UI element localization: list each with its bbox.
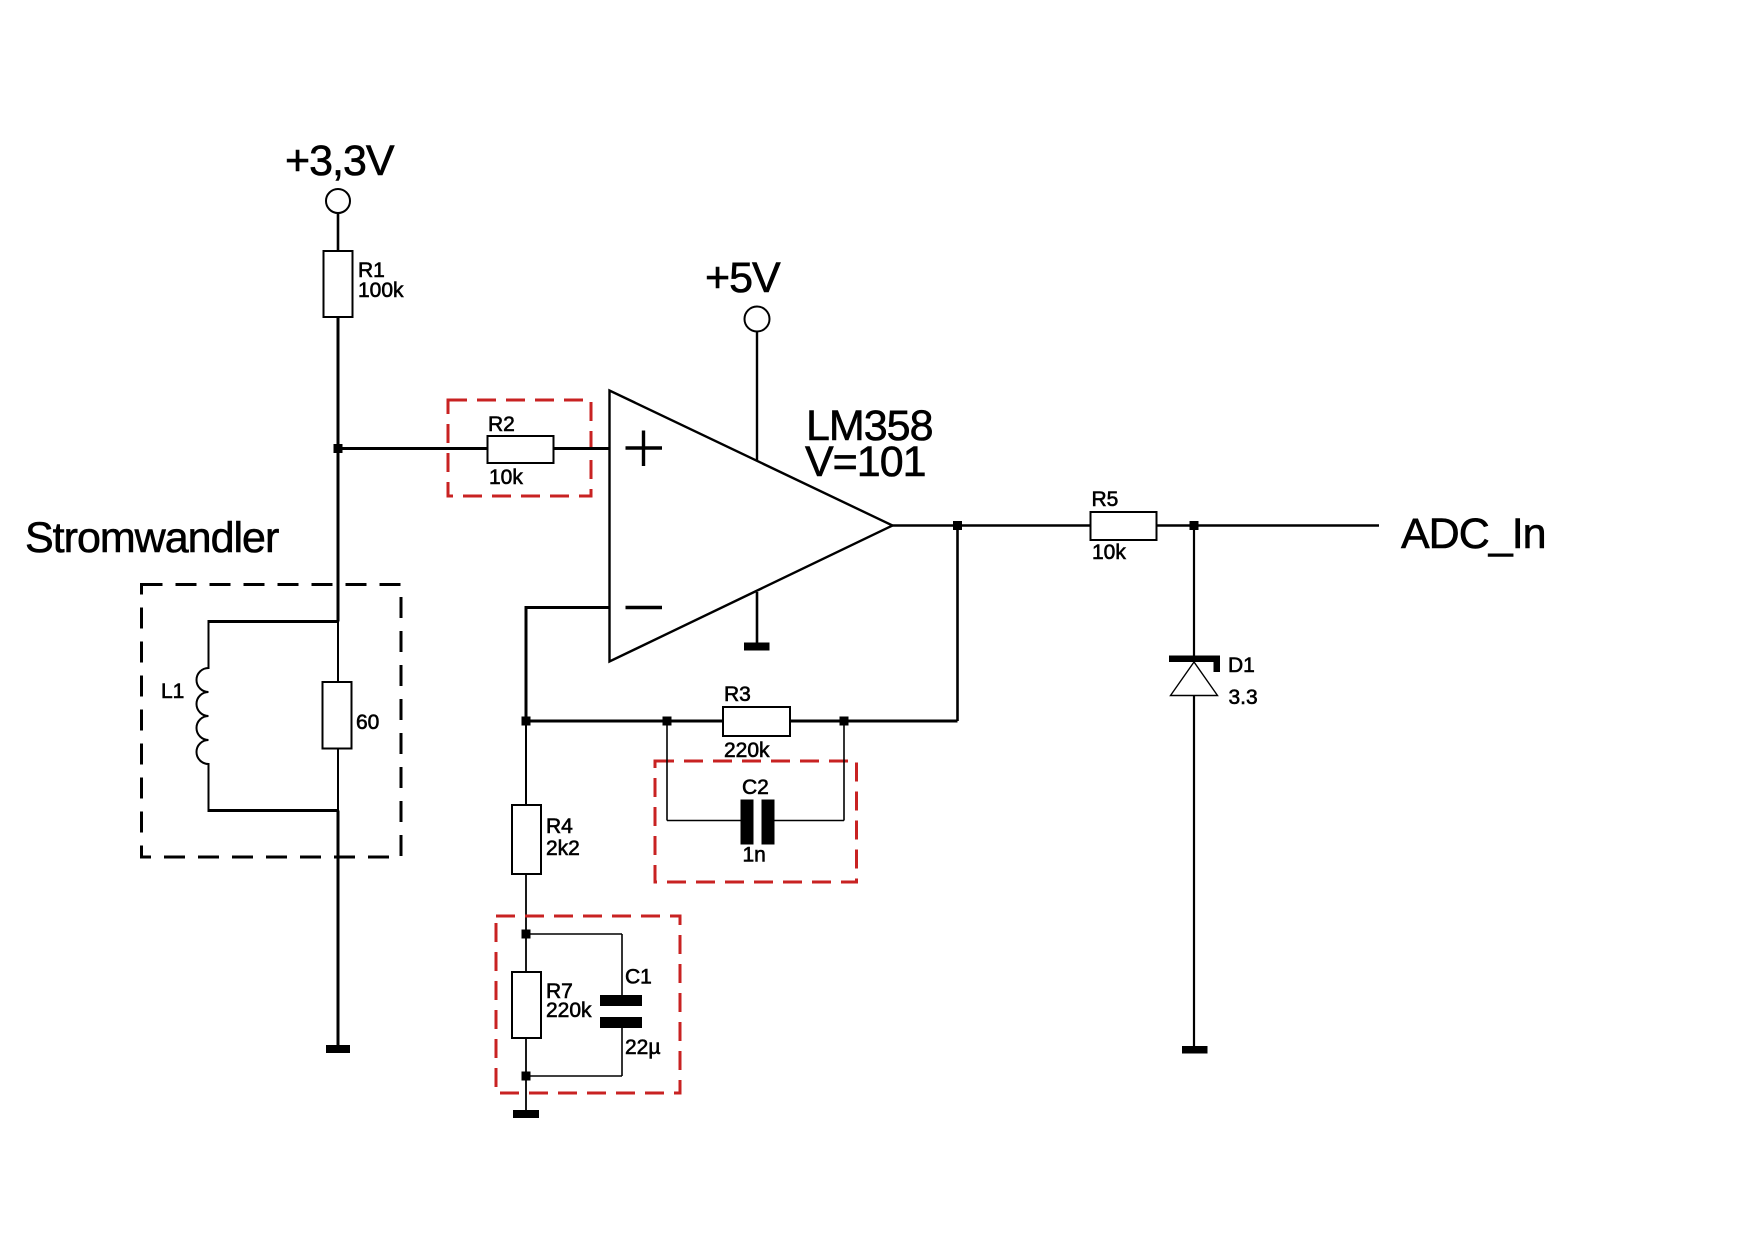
svg-text:2k2: 2k2	[546, 837, 580, 860]
resistor R7	[512, 934, 592, 1076]
op-amp minus input symbol	[626, 606, 663, 609]
power terminal +3,3V circle	[326, 189, 350, 213]
svg-text:R3: R3	[724, 683, 751, 706]
svg-text:R2: R2	[488, 413, 515, 436]
wire terminal to R1	[337, 213, 340, 251]
wire to inverting input	[526, 608, 609, 722]
svg-text:V=101: V=101	[805, 438, 926, 486]
wire R4 to R7 node	[525, 874, 527, 934]
wire node to ground	[525, 1076, 527, 1110]
wire node to D1	[1193, 526, 1195, 657]
wire R1 bottom to ground (main left vertical)	[337, 317, 340, 622]
svg-text:Stromwandler: Stromwandler	[25, 514, 279, 562]
svg-text:C2: C2	[742, 776, 769, 799]
node R7/C1 top	[522, 930, 531, 939]
red dashed box around R2	[448, 400, 591, 496]
svg-text:1n: 1n	[743, 844, 766, 867]
resistor R3	[723, 683, 790, 762]
svg-text:22µ: 22µ	[625, 1036, 660, 1059]
inductor L1	[161, 620, 338, 812]
svg-text:10k: 10k	[489, 466, 523, 489]
ground (op-amp)	[744, 643, 770, 651]
wire main vertical through Stromwandler lower	[337, 746, 339, 811]
zener diode D1	[1169, 654, 1258, 709]
node junction at R2 tap	[334, 444, 343, 453]
wire R5 to ADC node	[1157, 524, 1195, 526]
power terminal +5V circle	[745, 307, 770, 332]
wire R2 to op-amp + input	[554, 447, 610, 450]
svg-text:ADC_In: ADC_In	[1401, 510, 1546, 558]
wire D1 to ground	[1193, 696, 1195, 1047]
node output junction	[953, 521, 962, 530]
red dashed box around C2	[655, 761, 857, 882]
node C2 right	[840, 717, 849, 726]
svg-text:R5: R5	[1092, 488, 1119, 511]
svg-text:220k: 220k	[724, 739, 770, 762]
node feedback left junction	[522, 717, 531, 726]
ground (R7/C1)	[513, 1110, 539, 1118]
wire op-amp output	[893, 524, 1092, 526]
ground (left main)	[326, 1045, 350, 1053]
node R7/C1 bottom	[522, 1072, 531, 1081]
capacitor C1	[526, 934, 660, 1076]
svg-text:220k: 220k	[546, 999, 592, 1022]
svg-text:C1: C1	[625, 966, 652, 989]
svg-text:D1: D1	[1228, 654, 1255, 677]
svg-text:100k: 100k	[358, 279, 404, 302]
ground (D1)	[1182, 1046, 1208, 1054]
svg-text:10k: 10k	[1092, 541, 1126, 564]
wire node to R2	[338, 447, 489, 450]
wire feedback vertical	[956, 526, 959, 722]
resistor R1	[324, 251, 405, 317]
wire node to ADC_In	[1194, 524, 1379, 526]
wire feedback node to R4	[525, 721, 527, 805]
svg-text:+3,3V: +3,3V	[285, 137, 395, 185]
wire op-amp to ground	[756, 592, 759, 643]
capacitor C2	[667, 721, 844, 867]
resistor R2	[488, 413, 554, 489]
wire feedback horizontal	[526, 720, 958, 723]
resistor 60 (burden)	[323, 682, 380, 749]
svg-text:L1: L1	[161, 680, 184, 703]
red dashed box around R7/C1	[496, 916, 680, 1093]
Stromwandler dashed box	[142, 585, 402, 858]
op-amp U1 LM358 triangle	[610, 391, 893, 662]
svg-text:60: 60	[356, 711, 379, 734]
resistor R4	[512, 805, 580, 874]
node C2 left	[663, 717, 672, 726]
wire main vertical below Stromwandler to ground	[337, 811, 340, 1046]
svg-text:+5V: +5V	[705, 254, 781, 302]
resistor R5	[1091, 488, 1157, 564]
svg-text:R4: R4	[546, 815, 573, 838]
op-amp plus input symbol	[626, 431, 663, 467]
svg-text:3.3: 3.3	[1229, 686, 1258, 709]
wire +5V to op-amp	[756, 332, 758, 461]
wire main vertical through Stromwandler upper	[337, 622, 339, 685]
node ADC junction	[1190, 521, 1199, 530]
